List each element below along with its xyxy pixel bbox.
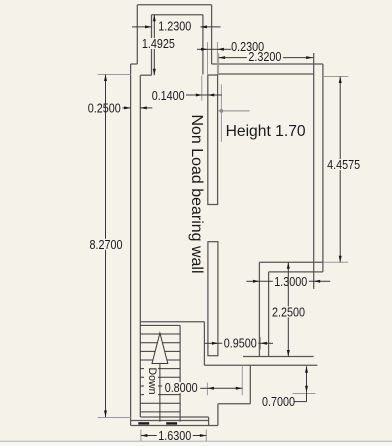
svg-text:1.3000: 1.3000: [274, 274, 307, 289]
svg-text:2.2500: 2.2500: [272, 304, 305, 319]
svg-text:0.8000: 0.8000: [165, 380, 198, 395]
svg-text:0.1400: 0.1400: [152, 88, 185, 103]
svg-text:2.3200: 2.3200: [248, 49, 281, 64]
svg-text:0.9500: 0.9500: [224, 336, 257, 351]
svg-text:0.2500: 0.2500: [88, 100, 121, 115]
svg-text:Non Load bearing wall: Non Load bearing wall: [188, 115, 205, 274]
svg-text:4.4575: 4.4575: [327, 157, 360, 172]
svg-text:1.2300: 1.2300: [158, 18, 191, 33]
svg-text:8.2700: 8.2700: [90, 237, 123, 252]
svg-text:1.4925: 1.4925: [142, 36, 175, 51]
svg-text:0.7000: 0.7000: [262, 394, 295, 409]
svg-text:Height 1.70: Height 1.70: [226, 123, 306, 140]
svg-text:Down: Down: [146, 368, 158, 395]
